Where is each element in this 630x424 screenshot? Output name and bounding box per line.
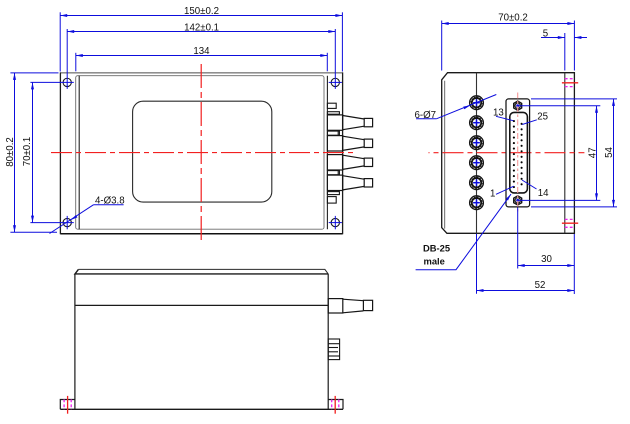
svg-text:54: 54 [604, 147, 615, 158]
front view bottom edge [60, 408, 343, 410]
thin bar above boot1 [327, 112, 339, 115]
leader 6-Ø7 [416, 95, 496, 119]
left foot [60, 400, 75, 410]
svg-text:male: male [424, 255, 445, 266]
pin 13 leader [496, 116, 513, 120]
round connector 5 [470, 176, 484, 190]
center line vertical top view [200, 64, 202, 242]
svg-text:DB-25: DB-25 [423, 243, 450, 254]
dimension 30 [518, 208, 575, 295]
front view ribbed block [328, 339, 339, 360]
dimension 47 [517, 106, 601, 201]
front view left edge [74, 274, 76, 409]
svg-text:70±0.2: 70±0.2 [498, 12, 528, 23]
svg-text:5: 5 [543, 29, 548, 40]
round connector 6 [470, 196, 484, 210]
pin 14 leader [522, 180, 537, 189]
front view lid seam line [75, 304, 328, 306]
dimension 52 [477, 234, 575, 294]
small feed-through rect top [327, 103, 336, 108]
top view body wall line left [78, 76, 80, 230]
left foot hole hidden lines [64, 396, 71, 414]
round connector 2 [470, 116, 484, 130]
svg-text:70±0.1: 70±0.1 [22, 137, 33, 167]
front view top inner edge [75, 269, 328, 274]
thin bar between boot1 and boot2 [327, 131, 339, 135]
dimension 150±0.2 [60, 12, 342, 71]
svg-text:4-Ø3.8: 4-Ø3.8 [95, 195, 125, 206]
right foot hole hidden lines [332, 396, 339, 414]
svg-text:30: 30 [541, 254, 552, 265]
top view body wall line right [326, 76, 328, 230]
svg-text:25: 25 [537, 112, 548, 123]
DB-25 connector flange plate [506, 99, 530, 207]
round connector 3 [470, 136, 484, 150]
mounting hole bottom-right [331, 218, 339, 226]
dimension 5 [541, 33, 587, 71]
right foot [328, 400, 343, 410]
thin bar between boot3 and boot4 [327, 171, 339, 175]
label recess rounded rectangle [133, 101, 272, 202]
small feed-through rect bottom [327, 197, 336, 204]
dimension 142±0.1 [67, 31, 335, 33]
mounting hole top-right [331, 78, 339, 86]
fiber connector boot 3 (top view) [327, 155, 372, 170]
dimension 54 [531, 99, 617, 207]
end view outline with chamfers [442, 73, 575, 234]
dimension 70±0.1 [32, 82, 34, 222]
svg-text:142±0.1: 142±0.1 [184, 23, 219, 34]
fiber connector boot 4 (top view) [327, 175, 372, 190]
front view right edge [327, 274, 329, 409]
pin 25 leader [522, 120, 537, 125]
svg-text:6-Ø7: 6-Ø7 [415, 110, 437, 121]
svg-text:14: 14 [538, 188, 549, 199]
front view top outer edge [78, 269, 328, 274]
svg-text:134: 134 [193, 46, 210, 57]
fiber connector boot 2 (top view) [327, 136, 372, 151]
leader 4-Ø3.8 [50, 205, 124, 234]
round connector 4 [470, 156, 484, 170]
mounting hole top-left [63, 78, 71, 86]
top view body inner outline [76, 76, 324, 230]
DB-25 jack screw bottom [514, 196, 522, 205]
dimension 70±0.2 end view [442, 21, 575, 71]
dimension 80±0.2 [10, 73, 58, 232]
end view front face fold line through connectors [476, 73, 478, 234]
svg-text:1: 1 [490, 189, 495, 200]
svg-text:47: 47 [588, 147, 599, 158]
center line horizontal top view [51, 152, 354, 154]
fiber connector boot 1 (top view) [327, 115, 372, 130]
mounting hole bottom-left [63, 218, 71, 226]
svg-text:80±0.2: 80±0.2 [5, 137, 16, 167]
dimension 134 [76, 53, 327, 72]
DB-25 leader line [416, 194, 511, 270]
hole crosshairs blue [30, 29, 342, 229]
DB-25 shell [510, 112, 528, 192]
center line horizontal end view [429, 152, 585, 154]
pin 1 leader [496, 186, 514, 194]
end view inner left wall line [444, 81, 446, 229]
thin bar below boot4 [327, 192, 339, 195]
front view fiber boot [328, 299, 372, 313]
DB-25 vertical center line [517, 93, 519, 212]
tab screw hole top (hidden lines) [562, 79, 578, 87]
end view rear plate boundary line [564, 73, 566, 234]
DB-25 pins column 1..13 [513, 120, 515, 188]
svg-text:150±0.2: 150±0.2 [184, 6, 219, 17]
DB-25 jack screw top [514, 101, 522, 110]
tab screw hole bottom (hidden lines) [562, 219, 578, 227]
round connector 1 [470, 96, 484, 110]
svg-text:52: 52 [535, 280, 546, 291]
top view outer flange outline [60, 72, 342, 234]
DB-25 pins column 14..25 [521, 123, 523, 186]
